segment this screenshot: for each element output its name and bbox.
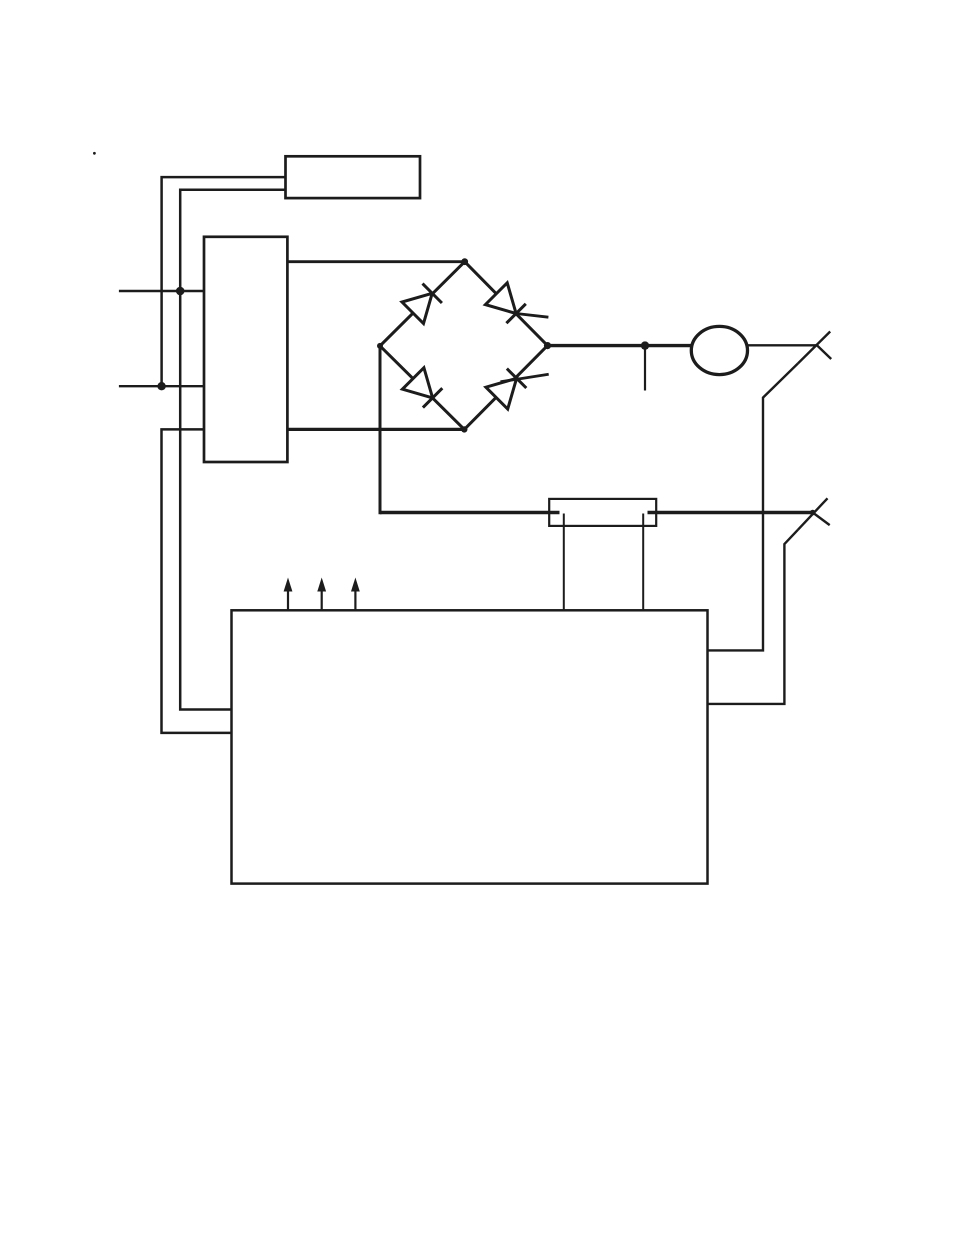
- left box: [204, 237, 287, 462]
- lower AC input wire: [119, 385, 204, 387]
- fuse box: [549, 499, 656, 526]
- bridge arm with SCR Q1 (top-right): [465, 262, 549, 346]
- indicator arrow 3: [351, 578, 360, 612]
- indicator arrow 2: [317, 578, 326, 612]
- wire left box to bridge top node: [287, 260, 464, 263]
- wire from top box left edge down to lower input junction: [162, 177, 286, 386]
- indicator arrow 1: [284, 578, 293, 612]
- wire bridge left node down to DC bus: [379, 346, 382, 514]
- bridge right node: [544, 342, 551, 349]
- top box: [286, 156, 421, 198]
- stray mark: [93, 152, 96, 155]
- DC bus right segment: [648, 511, 813, 515]
- hanging stub wire: [644, 346, 646, 391]
- lower connector X: [798, 498, 830, 529]
- wire bridge right node to motor: [548, 344, 694, 347]
- wire left box to bridge bottom node: [287, 428, 464, 431]
- junction dot on motor wire: [641, 341, 649, 349]
- wire motor to upper connector: [747, 344, 817, 346]
- wire lower connector to control box right side: [708, 530, 799, 704]
- fuse lead left: [563, 514, 565, 611]
- junction dot at lower connector: [810, 510, 816, 516]
- control box: [232, 610, 708, 883]
- bridge arm with diode D2 (bottom-left): [380, 346, 464, 430]
- bridge bottom node: [461, 426, 467, 432]
- bridge arm with SCR Q2 (bottom-right): [464, 346, 548, 430]
- upper AC input wire: [119, 290, 204, 292]
- bridge left node: [377, 343, 383, 349]
- motor M: [691, 326, 747, 374]
- bridge top node: [461, 258, 468, 265]
- wire upper connector to control box right side: [708, 363, 799, 650]
- junction dot on upper input: [176, 287, 185, 296]
- wire from top box left edge down to control box left side: [180, 190, 285, 710]
- junction dot on lower input: [157, 382, 165, 390]
- fuse lead right: [642, 514, 644, 611]
- bridge arm with diode D1 (top-left): [380, 262, 465, 346]
- DC bus left segment: [380, 511, 560, 515]
- wire L from left box lower left to control box left side: [162, 429, 232, 733]
- upper connector X: [798, 332, 831, 364]
